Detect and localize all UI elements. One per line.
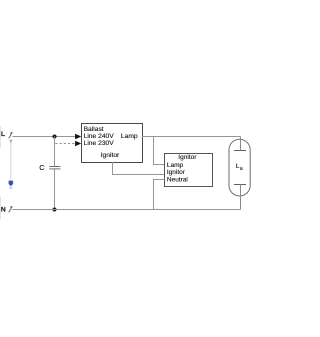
svg-text:Neutral: Neutral (167, 177, 189, 184)
svg-text:a: a (240, 166, 243, 172)
svg-text:Ignitor: Ignitor (178, 154, 197, 161)
left page-edge mark upper (0, 126, 1, 148)
ballast box U1 (82, 124, 143, 163)
wire N bus (13, 209, 241, 211)
junction dot on N wire (53, 208, 57, 212)
voltage arrow head lower (blue) (9, 181, 14, 187)
svg-text:Line 240V: Line 240V (84, 133, 115, 140)
ignitor box U2 (165, 154, 213, 187)
voltage arrow line (10, 141, 12, 182)
junction dot on L wire (53, 135, 57, 139)
terminal slash at N (9, 206, 13, 212)
svg-text:Ignitor: Ignitor (167, 169, 186, 176)
wire L to ballast (13, 136, 76, 138)
voltage arrow head lower fringe (9, 187, 12, 189)
capacitor C wire upper (54, 137, 56, 167)
svg-text:N: N (1, 207, 6, 214)
terminal slash at L (9, 132, 13, 138)
wire branch to ignitor Lamp input (154, 137, 165, 165)
lamp La envelope (229, 139, 250, 196)
capacitor C wire lower (54, 169, 56, 209)
svg-text:L: L (1, 131, 5, 138)
lamp top electrode (234, 150, 246, 152)
left page-edge mark lower (0, 197, 1, 219)
wire ballast Lamp to lamp top (142, 136, 241, 138)
svg-text:Ignitor: Ignitor (101, 152, 120, 159)
input arrow Line 240V (75, 134, 81, 139)
svg-text:Lamp: Lamp (121, 133, 138, 140)
svg-text:Line 230V: Line 230V (84, 140, 115, 147)
svg-text:Lamp: Lamp (167, 162, 184, 169)
dashed wire to Line 230V (55, 143, 75, 145)
svg-text:Ballast: Ballast (84, 126, 104, 133)
voltage arrow head upper (light blue) (9, 140, 12, 144)
lamp top lead (240, 137, 242, 151)
lamp bottom electrode (234, 184, 246, 186)
wire ignitor Neutral to N (154, 180, 165, 210)
lamp bottom lead (240, 185, 242, 210)
capacitor C plates (49, 166, 60, 168)
input arrow Line 230V (75, 141, 81, 146)
wire ballast Ignitor to ignitor box (113, 162, 165, 175)
svg-text:C: C (39, 163, 45, 172)
